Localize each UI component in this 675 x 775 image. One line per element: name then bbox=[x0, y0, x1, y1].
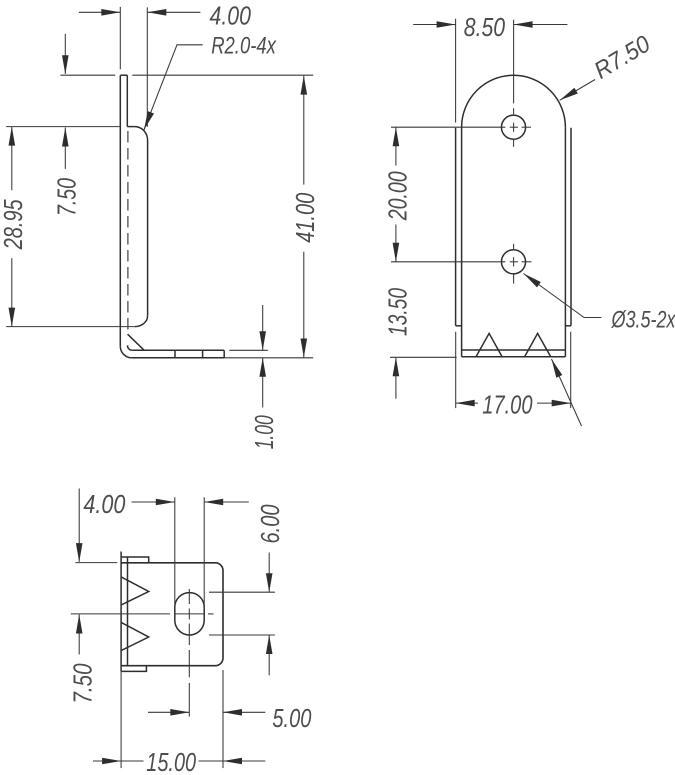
hole 1 vertical centerline chain bbox=[513, 108, 515, 114]
dim 1.00: flange top extension bbox=[229, 349, 267, 351]
svg-text:4.00: 4.00 bbox=[210, 1, 252, 31]
dim 28.95 arrows bbox=[9, 127, 16, 146]
dim 41.00: dimension line lower segment bbox=[303, 252, 305, 358]
dim 4.00 bottom: extension line 2 (slot right) bbox=[203, 497, 205, 620]
svg-text:4.00: 4.00 bbox=[83, 489, 125, 519]
side view: tab corner radius R2 top bbox=[135, 127, 148, 141]
svg-text:6.00: 6.00 bbox=[255, 504, 285, 543]
hole 2 horizontal centerline (20.00 bottom extension) bbox=[391, 261, 505, 263]
front view: flange top line bbox=[462, 349, 566, 351]
leader R2.0-4x: polyline bbox=[144, 45, 203, 130]
bottom view: slot (obround) bbox=[175, 593, 204, 635]
dim 8.50: left extension line bbox=[455, 19, 457, 123]
hole 1 horizontal centerline (20.00 top extension) bbox=[391, 126, 505, 128]
bottom view: wall end ear top bbox=[121, 557, 149, 563]
leader to V tabs (front view) bbox=[552, 359, 582, 426]
side view: tab top edge bbox=[127, 126, 135, 128]
dim 7.50 bottom arrows bbox=[76, 543, 83, 562]
leader R7.50 arrow bbox=[560, 88, 578, 101]
dim 1.00: lower arrow line bbox=[262, 358, 264, 408]
dim 6.00: top extension (slot top) bbox=[209, 591, 275, 593]
dim 6.00: bottom extension (slot bottom) bbox=[209, 634, 275, 636]
side view: flange bottom extension (1.00 and 41.00) bbox=[224, 357, 313, 359]
front view: inner right edge bbox=[564, 127, 566, 357]
dim 5.00 arrows bbox=[170, 709, 189, 716]
svg-text:17.00: 17.00 bbox=[482, 389, 533, 419]
side view: flange bottom outer line bbox=[132, 357, 224, 359]
dim 28.95: dimension line upper segment bbox=[11, 127, 13, 191]
svg-text:1.00: 1.00 bbox=[249, 415, 279, 449]
dim 8.50: dimension line left tail bbox=[413, 24, 455, 26]
svg-text:7.50: 7.50 bbox=[51, 178, 81, 216]
front view: hole 2 bbox=[501, 250, 525, 274]
dim 17.00: dimension line right segment bbox=[537, 402, 571, 404]
dim 28.95: dimension line lower segment bbox=[11, 258, 13, 326]
front view: lanced tab V mark 1 bbox=[476, 333, 502, 356]
dim 20.00: dimension line upper segment bbox=[395, 127, 397, 165]
hole 2 vertical centerline chain bbox=[513, 244, 515, 251]
dim 15.00: left extension line bbox=[120, 671, 122, 768]
dim 17.00: left extension line bbox=[455, 332, 457, 408]
side view: flange top line bbox=[132, 349, 224, 351]
dim 7.50 bottom: top extension (flange top edge) bbox=[75, 562, 117, 564]
dim 28.95: extension line at tab top (L1) bbox=[6, 126, 120, 128]
dim 15.00 arrows bbox=[102, 758, 121, 765]
dim 4.00 side: right extension line bbox=[146, 7, 148, 127]
bottom view: wall outer edge bbox=[120, 552, 122, 672]
front view: hole 1 bbox=[501, 115, 525, 139]
side view: tab right edge bbox=[147, 141, 149, 316]
dim 17.00: right extension line bbox=[570, 332, 572, 408]
slot horizontal centerline chain bbox=[71, 613, 170, 615]
slot vertical centerline chain bbox=[188, 589, 190, 604]
dim 7.50 side: lower arrow line bbox=[64, 128, 66, 169]
svg-text:Ø3.5-2x: Ø3.5-2x bbox=[611, 306, 675, 333]
dim 7.50 bottom: upper arrow line bbox=[78, 489, 80, 562]
bottom view: wall end ear bottom bbox=[121, 666, 146, 672]
side view: wall inner (right) edge upper solid part bbox=[126, 75, 128, 126]
leader V tabs arrow bbox=[552, 359, 563, 378]
leader R2.0-4x arrow bbox=[144, 111, 154, 130]
side view: wall top cap bbox=[120, 74, 127, 76]
dim 4.00 bottom: dimension line left tail bbox=[132, 501, 175, 503]
dim 6.00: upper arrow line bbox=[268, 553, 270, 593]
dim 41.00 arrows bbox=[301, 76, 308, 95]
dim 1.00: upper arrow line bbox=[262, 305, 264, 350]
svg-text:15.00: 15.00 bbox=[146, 747, 196, 775]
svg-text:8.50: 8.50 bbox=[464, 12, 506, 42]
dim 8.50 arrows bbox=[437, 21, 456, 28]
side view: top edge extension right (to 41.00) bbox=[132, 74, 313, 76]
dim 20.00: dimension line lower segment bbox=[395, 225, 397, 262]
dim 1.00 arrows bbox=[259, 331, 266, 350]
leader diameter 3.5-2x bbox=[524, 274, 602, 318]
dim 4.00 side: left extension line bbox=[119, 7, 121, 69]
dim 5.00: dimension line right tail bbox=[223, 711, 265, 713]
dim 4.00 side arrows bbox=[101, 9, 120, 16]
dim 7.50 side arrows bbox=[62, 55, 69, 74]
dim 4.00 side: dimension line right tail bbox=[147, 11, 200, 13]
front view: rounded top arc R7.50 bbox=[462, 75, 566, 127]
svg-text:R2.0-4x: R2.0-4x bbox=[211, 33, 276, 60]
svg-text:5.00: 5.00 bbox=[272, 703, 311, 733]
side view: slot edge tick 1 bbox=[174, 350, 176, 358]
side view: wall inner bend arc bbox=[127, 345, 132, 350]
bottom view: spring tab V 1 bbox=[121, 577, 149, 605]
side view: wall outer bend arc bbox=[120, 346, 132, 358]
dim 7.50 bottom: lower arrow line bbox=[78, 615, 80, 655]
front view: right bend tick bbox=[565, 325, 571, 327]
side view: wall outer (left) edge bbox=[119, 75, 121, 346]
dim 6.00 arrows bbox=[266, 573, 273, 592]
svg-text:28.95: 28.95 bbox=[0, 199, 28, 250]
dim 17.00: dimension line left segment bbox=[456, 402, 478, 404]
dim 17.00 arrows bbox=[456, 400, 475, 407]
dim 13.50 lower arrow bbox=[393, 357, 400, 376]
svg-text:41.00: 41.00 bbox=[290, 192, 320, 242]
front view: flange bottom line bbox=[462, 356, 566, 358]
front view: outer right edge bbox=[570, 128, 572, 326]
dim 4.00 bottom arrows bbox=[156, 499, 175, 506]
dim 15.00/5.00: right extension line bbox=[222, 670, 224, 768]
leader diameter 3.5 arrow bbox=[524, 274, 541, 288]
side view: flange end cap bbox=[223, 350, 225, 358]
dim 7.50 side: upper arrow line bbox=[64, 34, 66, 74]
dim 4.00 bottom: extension line 1 (slot left) bbox=[174, 497, 176, 607]
dim 28.95: extension line at tab bottom (L2) + tab bottom edge bbox=[6, 326, 135, 328]
dim 4.00 bottom: dimension line right tail bbox=[204, 501, 249, 503]
side view: top edge extension left bbox=[60, 74, 115, 76]
dim 8.50: dimension line right tail bbox=[514, 24, 568, 26]
dim 13.50: bottom extension line bbox=[390, 356, 457, 358]
svg-text:20.00: 20.00 bbox=[382, 171, 412, 221]
front view: outer left edge bbox=[455, 128, 457, 326]
dim 4.00 side: dimension line left tail bbox=[79, 11, 120, 13]
side view: slot edge tick 2 bbox=[202, 350, 204, 358]
bottom view: wall inner edge bbox=[127, 558, 129, 666]
dim 15.00: dimension line left tail bbox=[93, 760, 121, 762]
svg-text:7.50: 7.50 bbox=[68, 663, 98, 703]
dim 13.50: lower arrow line bbox=[395, 357, 397, 398]
svg-text:13.50: 13.50 bbox=[382, 288, 412, 336]
bottom view: flange outline with rounded corners bbox=[121, 563, 223, 666]
dim 5.00: dimension line left tail bbox=[148, 711, 189, 713]
side view: hidden lance line (dashed) bbox=[127, 131, 129, 334]
dim 15.00: dimension line right tail bbox=[223, 760, 265, 762]
side view: tab corner radius R2 bottom bbox=[135, 316, 148, 327]
dim 20.00 arrows bbox=[393, 127, 400, 146]
dim 8.50: right extension line (hole 1 centerline) bbox=[513, 20, 515, 104]
front view: inner left edge bbox=[461, 127, 463, 357]
bottom view: spring tab V 2 bbox=[121, 622, 149, 650]
dim 41.00: dimension line upper segment bbox=[303, 76, 305, 185]
leader R7.50 bbox=[560, 80, 595, 101]
front view: left bend tick bbox=[456, 325, 462, 327]
front view: lanced tab V mark 2 bbox=[525, 333, 551, 356]
dim 15.00: dimension line inner segments bbox=[121, 760, 143, 762]
dim 6.00: lower arrow line bbox=[268, 635, 270, 675]
side view: tab lance diagonal bbox=[128, 334, 145, 350]
